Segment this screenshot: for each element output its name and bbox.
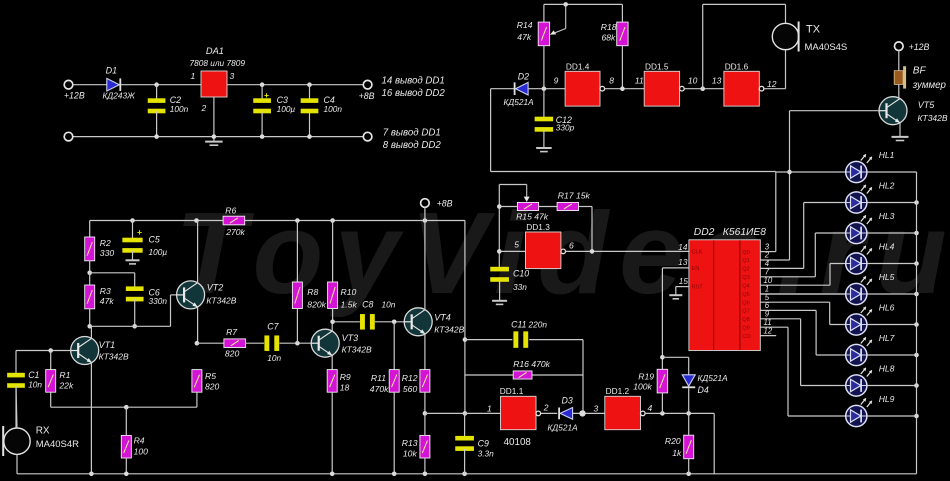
wire base VT1 (16, 348, 71, 353)
wire DD2 pin 3 (760, 172, 776, 252)
wire DD2 pin 4 (760, 203, 803, 269)
svg-text:Q6: Q6 (742, 300, 749, 306)
svg-text:33n: 33n (513, 282, 527, 292)
svg-text:10n: 10n (28, 380, 42, 390)
LED HL3 (846, 211, 895, 244)
svg-text:820: 820 (225, 348, 240, 358)
LED HL1 (846, 150, 895, 183)
svg-text:DD1.5: DD1.5 (645, 61, 669, 71)
svg-text:К561ИЕ8: К561ИЕ8 (723, 227, 766, 238)
svg-text:R2: R2 (100, 238, 111, 248)
svg-text:40108: 40108 (504, 437, 532, 448)
wire top rail R14-R18 (544, 2, 623, 7)
wire RST to ground (669, 287, 689, 299)
node R2-R3 (87, 271, 134, 276)
buzzer BF зуммер (894, 66, 946, 91)
svg-text:820: 820 (205, 382, 220, 392)
svg-text:HL2: HL2 (879, 180, 895, 190)
svg-text:100µ: 100µ (277, 104, 296, 114)
inverter DD1.2 (605, 386, 641, 430)
svg-text:270k: 270k (225, 227, 245, 237)
svg-text:КТ342В: КТ342В (342, 345, 372, 355)
op output bubble DD1.3 (561, 249, 566, 254)
capacitor C5 100µ (122, 221, 167, 264)
svg-text:DA1: DA1 (206, 46, 224, 56)
wire LED common rail (916, 172, 918, 474)
svg-text:22k: 22k (58, 381, 74, 391)
resistor R10 1.5k (328, 221, 358, 322)
svg-text:Q7: Q7 (742, 309, 749, 315)
resistor R11 470k (370, 322, 399, 474)
wire HL7 row (816, 353, 919, 358)
op output bubble DD1.2 (641, 411, 646, 416)
svg-text:КД521А: КД521А (548, 422, 579, 432)
wire HL9 row (788, 414, 919, 419)
LED HL5 (846, 272, 895, 305)
svg-text:Q4: Q4 (742, 283, 749, 289)
svg-text:EN: EN (692, 266, 700, 272)
svg-text:+: + (264, 90, 269, 100)
transistor VT1 КТ342В (71, 337, 129, 365)
svg-text:RST: RST (692, 285, 704, 291)
svg-text:КТ342В: КТ342В (206, 295, 236, 305)
svg-text:HL9: HL9 (879, 394, 895, 404)
wire DD2 pin 9 (760, 310, 800, 386)
op output bubble DD1.6 (759, 86, 764, 91)
wire (898, 84, 900, 99)
resistor R7 820 (224, 327, 246, 358)
wire HL4 row (830, 261, 919, 266)
svg-text:КД243Ж: КД243Ж (103, 91, 137, 101)
wire feedback from Q0 down to D2 (491, 89, 776, 172)
capacitor C4 100n (301, 85, 343, 137)
svg-text:Q3: Q3 (742, 275, 749, 281)
wire VT1 collector to VT2 base (87, 295, 176, 329)
svg-text:1: 1 (487, 404, 492, 414)
op output bubble DD1.1 (536, 411, 541, 416)
wire (121, 82, 201, 87)
svg-text:R3: R3 (100, 286, 111, 296)
svg-text:11: 11 (635, 76, 644, 86)
svg-text:RX: RX (36, 426, 50, 437)
svg-text:5: 5 (514, 239, 519, 249)
svg-text:12: 12 (764, 326, 773, 335)
svg-text:R13: R13 (402, 438, 418, 448)
svg-text:КД521А: КД521А (698, 373, 729, 383)
svg-text:330: 330 (100, 248, 115, 258)
svg-text:100k: 100k (633, 381, 652, 391)
svg-text:7 вывод DD1: 7 вывод DD1 (383, 128, 441, 139)
svg-text:R11: R11 (371, 373, 386, 383)
inverter DD1.4 (565, 61, 600, 106)
capacitor C10 33n (490, 267, 529, 305)
wire (605, 86, 645, 91)
svg-text:DD1.4: DD1.4 (566, 61, 590, 71)
svg-text:R9: R9 (340, 372, 351, 382)
svg-text:D4: D4 (698, 385, 709, 395)
wire collector VT2 (197, 221, 199, 284)
svg-text:MA40S4R: MA40S4R (36, 439, 79, 450)
svg-text:BF: BF (913, 66, 927, 77)
svg-text:R16 470k: R16 470k (513, 359, 550, 369)
svg-text:D1: D1 (106, 66, 118, 76)
wire (227, 82, 363, 87)
svg-text:R14: R14 (517, 20, 533, 30)
svg-text:HL7: HL7 (879, 333, 895, 343)
svg-text:470k: 470k (370, 384, 389, 394)
capacitor C1 10n (7, 351, 42, 429)
svg-text:HL1: HL1 (879, 150, 895, 160)
wire +8V bus (90, 218, 465, 223)
wire (197, 342, 224, 344)
svg-text:+: + (137, 227, 142, 237)
resistor R15 47k trimmer (516, 185, 549, 222)
LED HL7 (846, 333, 895, 366)
terminal +8V supply (421, 199, 453, 221)
svg-text:R20: R20 (665, 436, 681, 446)
wire DD2 pin 2 (760, 111, 792, 260)
svg-text:R18: R18 (601, 22, 617, 32)
svg-text:DD1.2: DD1.2 (606, 386, 630, 396)
wire R16 row (465, 340, 583, 414)
inverter DD1.6 (724, 61, 759, 106)
resistor R19 100k (633, 369, 667, 413)
svg-text:VT2: VT2 (207, 282, 224, 292)
svg-text:2: 2 (201, 103, 207, 113)
resistor R17 15k (557, 191, 590, 211)
svg-text:100µ: 100µ (149, 247, 168, 257)
svg-text:10n: 10n (267, 353, 281, 363)
counter DD2 К561ИЕ8 (689, 227, 766, 351)
ultrasonic receiver RX MA40S4R (2, 426, 79, 457)
svg-text:330p: 330p (556, 123, 575, 133)
svg-text:DD1.1: DD1.1 (500, 386, 524, 396)
wire DD2 pin 5 (760, 293, 829, 325)
svg-text:HL5: HL5 (879, 272, 895, 282)
svg-text:VT5: VT5 (918, 100, 936, 110)
diode D4 КД521А (682, 357, 728, 413)
wire (528, 86, 565, 91)
svg-text:зуммер: зуммер (912, 80, 947, 91)
svg-text:47k: 47k (517, 32, 532, 42)
LED HL8 (846, 363, 895, 396)
wire (579, 207, 593, 252)
svg-text:R6: R6 (225, 205, 236, 215)
diode D3 КД521А (548, 395, 579, 432)
terminal +12V buzzer (895, 42, 930, 52)
resistor R2 330 (85, 221, 115, 273)
svg-text:68k: 68k (602, 32, 617, 42)
wire (539, 206, 558, 208)
svg-text:+12В: +12В (909, 42, 930, 52)
wire pin1 row (425, 412, 501, 414)
wire emitter VT1 (90, 362, 92, 474)
wire DD2 pin 11 (760, 318, 788, 416)
svg-text:10: 10 (764, 276, 773, 285)
svg-text:TX: TX (806, 24, 821, 36)
svg-text:Q5: Q5 (742, 292, 749, 298)
node 7/8 label (383, 128, 442, 151)
wire HL5 row (760, 292, 919, 297)
svg-text:R15 47k: R15 47k (516, 211, 549, 221)
ground DA1 (205, 97, 223, 145)
svg-text:R10: R10 (341, 287, 357, 297)
svg-text:7808 или 7809: 7808 или 7809 (190, 58, 246, 68)
wire DD2 pin 1 (760, 285, 845, 294)
op output bubble DD1.4 (600, 86, 605, 91)
capacitor C11 220n (511, 320, 547, 348)
svg-text:47k: 47k (100, 296, 115, 306)
wire EN to R19 (660, 268, 689, 369)
node 14/16 label (382, 76, 446, 99)
wire (375, 320, 404, 325)
capacitor C9 3.3n (455, 413, 494, 473)
svg-text:13: 13 (712, 76, 722, 86)
op output bubble DD1.5 (680, 86, 685, 91)
wire collector VT1 (90, 326, 92, 338)
wire RX top (16, 386, 17, 428)
terminal +8V output (359, 80, 375, 101)
svg-text:100n: 100n (170, 104, 189, 114)
svg-text:DD1.6: DD1.6 (725, 61, 749, 71)
svg-text:CLK: CLK (692, 249, 703, 255)
svg-text:14: 14 (678, 243, 688, 252)
svg-text:8: 8 (609, 76, 614, 86)
wire (898, 51, 900, 71)
svg-text:Q1: Q1 (742, 258, 749, 264)
inverter DD1.3 (526, 222, 561, 268)
wire DD2 pin 6 (760, 301, 816, 355)
svg-text:4: 4 (648, 403, 653, 413)
wire (662, 356, 688, 358)
resistor R1 22k (46, 351, 74, 408)
wire collector VT3 (330, 320, 335, 332)
capacitor C7 10n (264, 322, 281, 364)
transistor VT2 КТ342В (177, 281, 237, 309)
terminal 0V left (64, 132, 73, 141)
capacitor C2 100n (148, 85, 189, 137)
svg-text:КТ342В: КТ342В (99, 352, 129, 362)
resistor R14 47k trimmer (517, 4, 566, 88)
svg-text:VT3: VT3 (342, 333, 359, 343)
svg-text:CO: CO (742, 334, 751, 340)
wire R15 wiper link (497, 185, 527, 269)
wire R1-R4-R5 row (51, 405, 197, 410)
transistor VT3 КТ342В (311, 329, 372, 357)
capacitor C3 100µ (253, 85, 295, 137)
wire RX bottom (16, 454, 18, 473)
resistor R5 820 (192, 370, 220, 408)
svg-text:R8: R8 (307, 287, 318, 297)
LED HL9 (846, 394, 895, 427)
resistor R8 820k (292, 221, 326, 344)
svg-text:Q0: Q0 (742, 250, 749, 256)
svg-text:HL4: HL4 (879, 241, 895, 251)
wire HL6 row (830, 322, 919, 327)
wire 0V rail (73, 134, 364, 139)
svg-text:C11: C11 (511, 320, 527, 330)
svg-text:КД521А: КД521А (504, 97, 535, 107)
svg-text:14 вывод DD1: 14 вывод DD1 (382, 76, 445, 87)
diode D1 КД243Ж (103, 66, 137, 101)
resistor R9 18 (327, 370, 351, 474)
resistor R4 100 (121, 407, 148, 474)
svg-text:MA40S4S: MA40S4S (805, 42, 848, 53)
svg-text:1.5k: 1.5k (341, 299, 358, 309)
resistor R3 47k (85, 273, 115, 327)
wire HL8 row (801, 383, 919, 388)
wire C11 row (465, 339, 583, 341)
svg-text:КТ342В: КТ342В (918, 113, 948, 123)
diode D2 КД521А (504, 72, 535, 107)
svg-text:1k: 1k (672, 448, 682, 458)
svg-text:Q8: Q8 (742, 317, 749, 323)
svg-text:C7: C7 (267, 322, 279, 332)
svg-text:220n: 220n (528, 320, 548, 330)
inverter DD1.5 (644, 61, 679, 106)
svg-text:R12: R12 (402, 373, 418, 383)
svg-text:10: 10 (688, 76, 698, 86)
svg-text:13: 13 (678, 258, 688, 267)
resistor R18 68k (601, 4, 628, 88)
ultrasonic transmitter TX MA40S4S (772, 22, 847, 54)
wire base VT5 (790, 110, 880, 112)
ground VT5 (892, 137, 909, 141)
wire TX bottom drive (764, 50, 786, 89)
svg-text:КТ342В: КТ342В (434, 324, 464, 334)
wire ground rail bottom (17, 472, 917, 477)
inverter DD1.1 40108 (500, 386, 536, 448)
svg-text:12: 12 (767, 79, 777, 89)
resistor R6 270k (223, 205, 245, 237)
svg-text:VT1: VT1 (99, 340, 116, 350)
wire (541, 412, 558, 414)
wire collector VT4 (424, 221, 426, 311)
svg-text:820k: 820k (307, 299, 326, 309)
terminal 0V right (363, 132, 372, 141)
svg-text:2: 2 (543, 403, 549, 413)
wire HL1 row (776, 171, 917, 173)
svg-text:HL3: HL3 (879, 211, 895, 221)
wire (499, 206, 517, 208)
capacitor C6 330n (126, 273, 167, 327)
svg-text:HL8: HL8 (879, 363, 895, 373)
wire (645, 411, 714, 474)
wire HL2 row (804, 200, 919, 205)
svg-text:D2: D2 (518, 72, 529, 82)
wire (73, 84, 108, 86)
svg-text:+12В: +12В (64, 90, 85, 100)
wire CLK (566, 249, 689, 254)
LED HL4 (846, 241, 895, 274)
svg-text:15: 15 (679, 277, 689, 286)
voltage regulator DA1 7808/7809 (190, 46, 246, 97)
svg-text:+8В: +8В (437, 199, 453, 209)
wire (684, 86, 724, 91)
capacitor C8 10n (360, 299, 396, 329)
wire emitter VT2 (195, 307, 200, 346)
wire DD2 pin 12 (760, 326, 776, 335)
svg-text:R5: R5 (205, 371, 216, 381)
svg-text:18: 18 (340, 382, 350, 392)
wire TX top drive (703, 4, 786, 88)
wire (491, 88, 515, 90)
svg-text:+8В: +8В (359, 91, 375, 101)
wire (573, 410, 605, 416)
wire +8V to C11 node (463, 221, 468, 416)
svg-text:Q2: Q2 (742, 267, 749, 273)
svg-text:R4: R4 (134, 436, 145, 446)
resistor R20 1k (665, 413, 694, 473)
svg-text:16 вывод DD2: 16 вывод DD2 (382, 88, 446, 99)
wire (246, 342, 265, 344)
svg-text:R7: R7 (226, 327, 238, 337)
svg-text:R17 15k: R17 15k (558, 191, 591, 201)
resistor R16 470k (513, 359, 550, 379)
wire emitter VT4 (424, 334, 426, 370)
wire pin5 (499, 250, 525, 252)
svg-text:3: 3 (594, 404, 599, 414)
svg-text:HL6: HL6 (879, 302, 895, 312)
svg-text:9: 9 (554, 76, 559, 86)
resistor R12 560 (402, 370, 430, 416)
svg-text:Q9: Q9 (742, 325, 749, 331)
svg-text:C10: C10 (513, 268, 529, 278)
svg-text:D3: D3 (562, 395, 573, 405)
wire C8 row (333, 321, 360, 323)
svg-text:R19: R19 (638, 371, 654, 381)
svg-text:VT4: VT4 (434, 312, 451, 322)
svg-text:3.3n: 3.3n (478, 448, 495, 458)
svg-text:6: 6 (569, 240, 574, 250)
terminal +12V input (64, 80, 85, 100)
svg-text:C8: C8 (362, 299, 373, 309)
svg-text:C9: C9 (478, 438, 489, 448)
resistor R13 10k (402, 413, 430, 473)
svg-text:560: 560 (403, 384, 418, 394)
svg-text:R1: R1 (59, 370, 70, 380)
transistor VT5 КТ342В (879, 97, 948, 125)
svg-text:C5: C5 (149, 235, 160, 245)
wire DD2 pin 10 (760, 264, 830, 286)
LED HL6 (846, 302, 895, 335)
wire DD2 pin 7 (760, 233, 815, 277)
svg-text:1: 1 (191, 71, 196, 81)
wire (280, 341, 312, 346)
svg-text:10n: 10n (382, 299, 396, 309)
svg-text:8 вывод DD2: 8 вывод DD2 (383, 140, 442, 151)
svg-text:330n: 330n (149, 296, 168, 306)
svg-text:DD1.3: DD1.3 (526, 222, 550, 232)
svg-text:100n: 100n (324, 104, 343, 114)
wire HL3 row (815, 231, 919, 236)
transistor VT4 КТ342В (404, 308, 464, 336)
wire emitter VT5 (899, 123, 901, 137)
svg-text:DD2: DD2 (694, 227, 715, 238)
svg-text:10k: 10k (403, 449, 418, 459)
LED HL2 (846, 180, 895, 213)
wire emitter VT3 (331, 355, 333, 369)
svg-text:100: 100 (134, 446, 149, 456)
svg-text:3: 3 (230, 71, 235, 81)
capacitor C12 330p (535, 89, 575, 152)
